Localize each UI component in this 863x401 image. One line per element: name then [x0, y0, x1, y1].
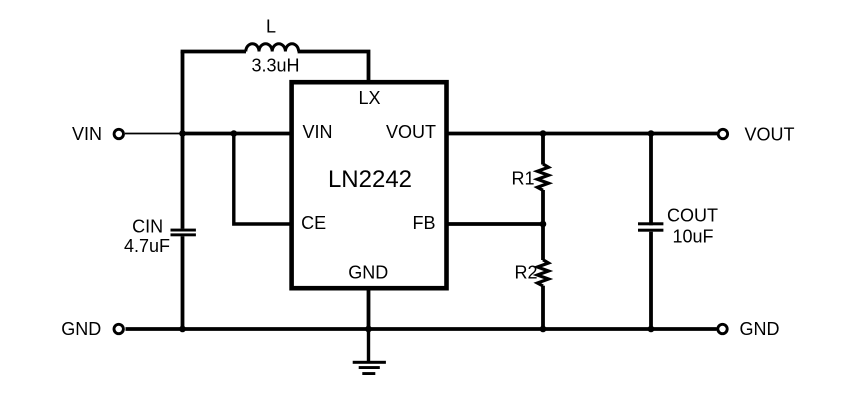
svg-text:GND: GND	[61, 319, 101, 339]
value label 4.7uF	[124, 236, 170, 256]
label R2	[514, 263, 537, 283]
svg-text:VIN: VIN	[72, 124, 102, 144]
op-amp U1 : IC body LN2242	[292, 82, 447, 288]
svg-text:LN2242: LN2242	[328, 166, 412, 193]
capacitor C1 : CIN plates	[171, 229, 196, 237]
label COUT	[667, 206, 718, 226]
pin VIN label	[302, 122, 332, 142]
svg-text:FB: FB	[412, 213, 435, 233]
svg-text:L: L	[266, 17, 276, 37]
svg-text:VIN: VIN	[302, 122, 332, 142]
svg-text:10uF: 10uF	[672, 227, 713, 247]
wire : top run right of inductor to LX	[298, 52, 369, 83]
wire : GND rail	[126, 327, 717, 331]
pin FB label	[412, 213, 435, 233]
wire : COUT upper lead	[649, 134, 653, 226]
wire : R2 upper lead	[541, 224, 545, 260]
svg-text:GND: GND	[740, 319, 780, 339]
svg-text:COUT: COUT	[667, 206, 718, 226]
svg-text:3.3uH: 3.3uH	[251, 55, 299, 75]
label VOUT	[744, 125, 794, 145]
wire : COUT lower lead	[649, 232, 653, 329]
svg-text:VOUT: VOUT	[744, 125, 794, 145]
node : GND pin junction	[365, 326, 372, 333]
pin LX label	[358, 88, 380, 108]
label CIN	[132, 217, 163, 237]
ground	[353, 329, 386, 375]
wire : R2 lower lead	[541, 286, 545, 329]
value label 3.3uH	[251, 55, 299, 75]
wire : VIN terminal lead (thin)	[125, 133, 183, 135]
terminal VIN	[114, 129, 123, 138]
node : R1 top junction	[540, 130, 547, 137]
label VIN	[72, 124, 102, 144]
node : COUT top junction	[648, 130, 655, 137]
inductor L	[246, 44, 299, 52]
label GND right	[740, 319, 780, 339]
node : R2/GND rail junction	[540, 326, 547, 333]
wire : CE branch	[234, 134, 291, 225]
wire : R1 upper lead	[541, 134, 545, 165]
svg-text:LX: LX	[358, 88, 380, 108]
wire : CIN lower lead	[181, 236, 185, 329]
svg-text:4.7uF: 4.7uF	[124, 236, 170, 256]
IC label LN2242	[328, 166, 412, 193]
wire : VOUT line	[446, 132, 717, 136]
node B : CE branch junction	[231, 130, 238, 137]
wire : FB line	[446, 222, 543, 226]
value label 10uF	[672, 227, 713, 247]
pin CE label	[301, 213, 326, 233]
resistor R1	[537, 164, 548, 190]
svg-text:CE: CE	[301, 213, 326, 233]
wire : R1 lower lead	[541, 190, 545, 224]
wire : IC GND pin to rail	[367, 290, 371, 329]
svg-text:R2: R2	[514, 263, 537, 283]
wire : top run left of inductor	[181, 50, 246, 54]
pin GND label	[348, 262, 388, 282]
pin VOUT label	[386, 122, 436, 142]
svg-text:R1: R1	[511, 169, 534, 189]
wire : VIN node to IC VIN pin	[183, 132, 292, 136]
node : FB junction	[540, 221, 547, 228]
resistor R2	[537, 260, 548, 286]
node : CIN/GND rail junction	[179, 326, 186, 333]
wire : CIN upper lead	[181, 134, 185, 229]
svg-text:CIN: CIN	[132, 217, 163, 237]
node A : VIN/inductor junction	[179, 130, 186, 137]
label GND left	[61, 319, 101, 339]
label R1	[511, 169, 534, 189]
label L	[266, 17, 276, 37]
terminal GND right	[718, 324, 727, 333]
terminal VOUT	[718, 129, 727, 138]
node : COUT/GND rail junction	[648, 326, 655, 333]
terminal GND left	[114, 324, 123, 333]
wire : left riser of inductor loop	[181, 52, 185, 134]
capacitor C2 : COUT plates	[638, 222, 663, 231]
svg-text:VOUT: VOUT	[386, 122, 436, 142]
svg-text:GND: GND	[348, 262, 388, 282]
